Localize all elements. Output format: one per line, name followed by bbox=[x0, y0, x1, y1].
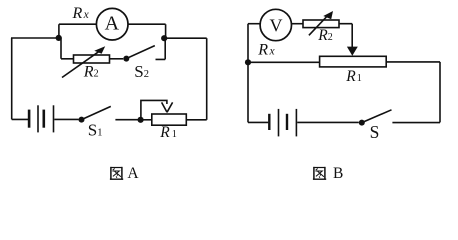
wire: battery to switch S1 bbox=[54, 118, 78, 120]
node: left junction bbox=[56, 35, 62, 41]
svg-text:A: A bbox=[105, 13, 120, 35]
svg-text:S2: S2 bbox=[134, 62, 149, 81]
svg-text:R1: R1 bbox=[159, 124, 177, 141]
node: right junction bbox=[161, 35, 167, 41]
switch S1 bbox=[79, 117, 85, 123]
svg-text:S1: S1 bbox=[88, 121, 103, 140]
rheostat R2 (B) bbox=[303, 20, 339, 28]
wire: B outer right vertical bbox=[439, 62, 441, 123]
wire: right junction to outer right bbox=[164, 37, 207, 39]
wire: junction to R1 (B) bbox=[248, 61, 320, 63]
node: R1 junction bbox=[138, 117, 144, 123]
rheostat R2 arrow bbox=[62, 52, 99, 78]
wire: top-left horizontal bbox=[11, 37, 59, 39]
wire: R2 (B) to slider drop bbox=[339, 24, 352, 47]
svg-text:A: A bbox=[127, 165, 139, 182]
wire: B bottom-left to battery bbox=[248, 121, 268, 123]
svg-text:Rx: Rx bbox=[257, 42, 275, 59]
wire: R1 to outer right bbox=[186, 119, 206, 121]
wire: outer left vertical bbox=[11, 38, 13, 119]
svg-text:B: B bbox=[333, 165, 343, 182]
ammeter A1 bbox=[96, 8, 128, 40]
svg-text:S: S bbox=[370, 122, 380, 142]
wire: middle branch down + to R2 bbox=[61, 38, 74, 59]
wire: top branch up + to ammeter bbox=[59, 24, 97, 38]
rheostat R2 bbox=[74, 55, 110, 63]
svg-text:R1: R1 bbox=[345, 68, 361, 85]
slider arrow onto R1 (B) bbox=[347, 47, 358, 56]
svg-text:R2: R2 bbox=[83, 63, 99, 80]
wire: junction to R1 bbox=[141, 119, 152, 121]
rheostat R2 (B) arrow bbox=[309, 16, 327, 35]
wire: B outer left vertical bbox=[247, 24, 249, 123]
wire: ammeter to right corner bbox=[128, 24, 166, 38]
battery B2 bbox=[268, 114, 270, 130]
caption 图 B bbox=[313, 167, 326, 179]
wire: R1 (B) to outer right bbox=[386, 61, 440, 63]
svg-text:Rx: Rx bbox=[72, 5, 90, 22]
rheostat R1 bbox=[152, 114, 187, 125]
battery B1 bbox=[28, 110, 31, 128]
potentiometer R1 (B) bbox=[320, 56, 387, 67]
wire: R2 to switch S2 bbox=[110, 58, 124, 60]
switch S (B) bbox=[359, 120, 365, 126]
svg-text:V: V bbox=[270, 16, 283, 36]
wire: outer right vertical bbox=[206, 38, 208, 120]
svg-text:R2: R2 bbox=[317, 27, 332, 44]
node: B left junction bbox=[245, 59, 251, 65]
switch S2 bbox=[123, 56, 129, 62]
rheostat R1 slider arm bbox=[141, 100, 167, 119]
wire: bottom-left to battery bbox=[12, 118, 28, 120]
caption 图 A bbox=[110, 167, 123, 179]
voltmeter V1 bbox=[260, 9, 291, 40]
wire: B top-left to voltmeter bbox=[248, 23, 260, 25]
wire: battery to switch S (B) bbox=[297, 121, 359, 123]
wire: voltmeter to R2 (B) bbox=[291, 23, 303, 25]
